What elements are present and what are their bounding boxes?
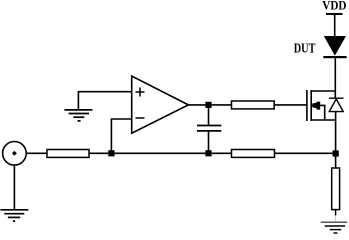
node C junction (below capacitor) bbox=[205, 150, 211, 156]
wire R2 to gate of Q1 bbox=[274, 104, 307, 106]
resistor R3 (feedback, horizontal) bbox=[232, 150, 275, 158]
source V1 (signal generator, bottom left) bbox=[3, 142, 27, 166]
wire junction to resistor R4 bbox=[335, 156, 337, 168]
wire faint segment to ground bbox=[335, 216, 337, 223]
transistor Q1 N-MOSFET bbox=[307, 90, 335, 121]
gate bar bbox=[306, 90, 308, 121]
wire diode cathode to MOSFET drain node bbox=[334, 58, 336, 91]
resistor R4 (sense, vertical) bbox=[332, 168, 340, 210]
channel bar bbox=[310, 90, 312, 121]
resistor R1 (input, horizontal) bbox=[47, 150, 89, 158]
MOSFET arrow (points into channel) bbox=[312, 102, 320, 110]
wire feedback up to op-amp inverting input bbox=[111, 119, 131, 150]
node A junction (feedback tap) bbox=[108, 150, 114, 156]
wire drain node down to body-diode cathode bbox=[334, 91, 336, 98]
wire capacitor C1 to node C bbox=[208, 131, 210, 153]
wire node B to resistor R2 bbox=[212, 104, 232, 106]
ground (bottom right) bbox=[321, 222, 347, 233]
drain lead bbox=[311, 90, 335, 92]
body lead bbox=[320, 105, 325, 120]
source V1 center diamond bbox=[12, 151, 17, 156]
power bar VDD bbox=[326, 13, 343, 15]
wire R1 to node A bbox=[89, 152, 111, 154]
op-amp plus marking bbox=[136, 88, 145, 97]
wire lower rail node A to node C bbox=[115, 152, 209, 154]
ground (bottom left) bbox=[0, 210, 28, 221]
wire resistor R4 to ground bbox=[335, 210, 337, 216]
op-amp minus marking bbox=[136, 117, 145, 119]
wire V1 down to ground bbox=[13, 165, 15, 210]
capacitor C1 bbox=[197, 126, 221, 131]
wire body-diode anode to source node junction bbox=[335, 112, 337, 154]
resistor R2 (gate, horizontal) bbox=[232, 101, 275, 109]
op-amp U1 bbox=[132, 76, 189, 133]
ground (op-amp non-inverting input) bbox=[64, 110, 92, 121]
wire ground to op-amp non-inverting input bbox=[78, 92, 131, 110]
wire node C to resistor R3 bbox=[212, 152, 232, 154]
node junction (source of Q1, right end of lower rail) bbox=[333, 150, 339, 156]
wire V1 to resistor R1 bbox=[26, 152, 47, 154]
wire node B down to capacitor C1 bbox=[208, 108, 210, 126]
wire R3 to source node junction bbox=[275, 152, 333, 154]
svg-text:VDD: VDD bbox=[322, 0, 346, 13]
wire op-amp output to node B bbox=[188, 104, 208, 106]
wire VDD bar to diode anode bbox=[334, 15, 336, 37]
body diode D2 of Q1 bbox=[329, 98, 344, 111]
diode DUT (filled, cathode down) bbox=[323, 36, 346, 58]
source lead bbox=[311, 119, 335, 121]
node B junction (op-amp output) bbox=[205, 102, 211, 108]
svg-text:DUT: DUT bbox=[294, 41, 316, 56]
